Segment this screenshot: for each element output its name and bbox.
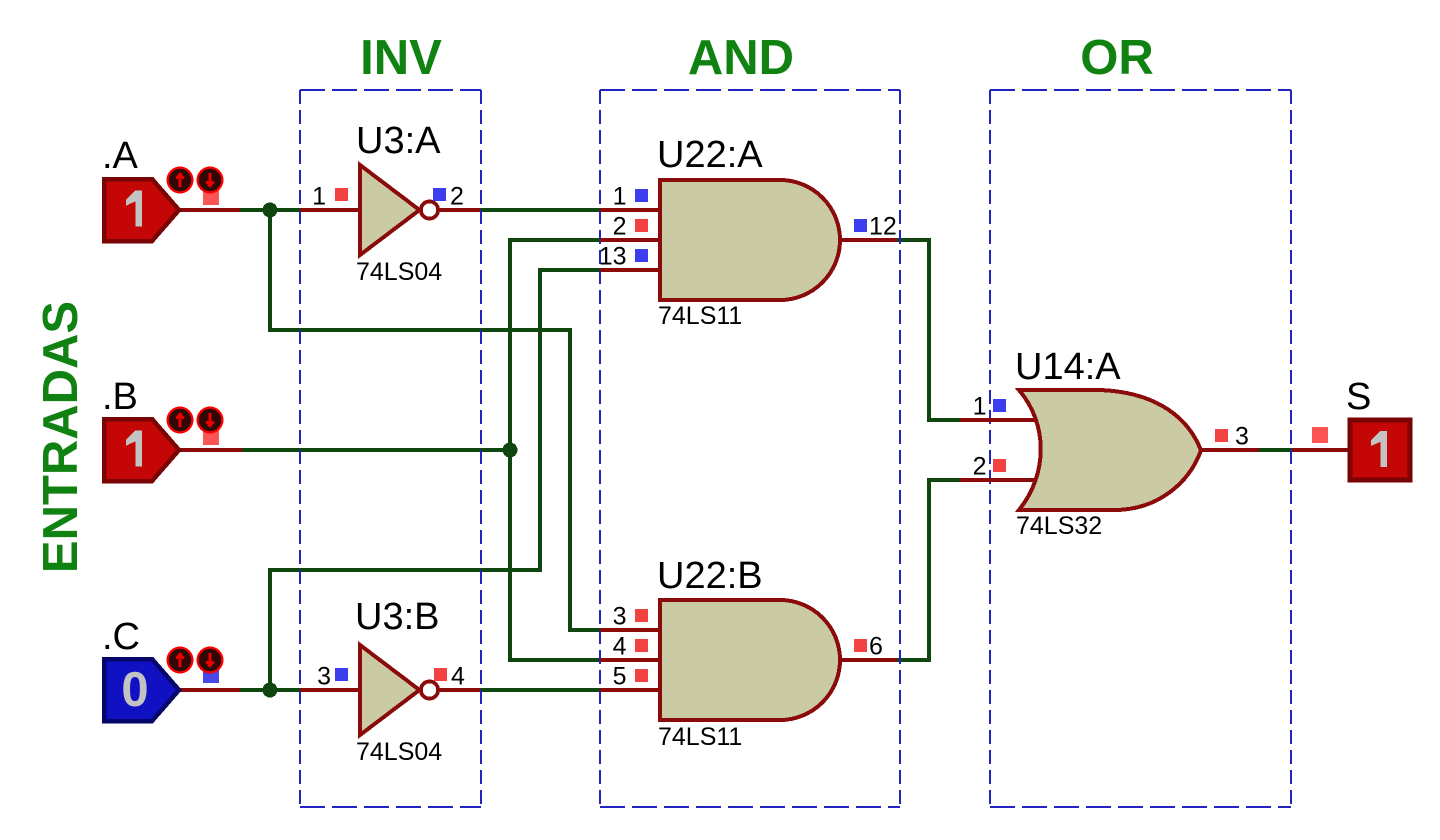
svg-text:1: 1 [312, 183, 326, 211]
svg-text:OR: OR [1080, 31, 1154, 85]
svg-text:74LS32: 74LS32 [1016, 512, 1102, 540]
svg-text:74LS11: 74LS11 [658, 723, 742, 751]
svg-text:ENTRADAS: ENTRADAS [34, 301, 88, 573]
svg-text:4: 4 [451, 663, 465, 691]
svg-text:2: 2 [973, 453, 987, 481]
svg-text:.A: .A [102, 135, 139, 177]
svg-text:5: 5 [613, 663, 627, 691]
svg-text:INV: INV [360, 31, 442, 85]
svg-text:74LS04: 74LS04 [356, 258, 442, 286]
svg-text:AND: AND [688, 31, 794, 85]
svg-text:U22:B: U22:B [657, 555, 763, 597]
svg-text:U3:B: U3:B [355, 596, 439, 638]
svg-text:1: 1 [973, 393, 987, 421]
svg-text:2: 2 [613, 213, 627, 241]
svg-text:74LS11: 74LS11 [658, 302, 742, 330]
svg-text:0: 0 [121, 663, 148, 717]
svg-text:.B: .B [102, 376, 138, 418]
svg-text:6: 6 [869, 633, 883, 661]
svg-text:3: 3 [613, 603, 627, 631]
svg-text:4: 4 [613, 633, 627, 661]
svg-text:3: 3 [1235, 423, 1249, 451]
svg-text:U3:A: U3:A [356, 120, 441, 162]
svg-text:2: 2 [450, 183, 464, 211]
svg-text:3: 3 [317, 663, 331, 691]
svg-text:1: 1 [613, 183, 627, 211]
svg-text:U22:A: U22:A [657, 134, 763, 176]
svg-text:S: S [1346, 376, 1371, 418]
svg-text:13: 13 [599, 243, 627, 271]
svg-text:U14:A: U14:A [1015, 346, 1121, 388]
svg-text:.C: .C [102, 616, 140, 658]
svg-text:74LS04: 74LS04 [356, 738, 442, 766]
svg-text:12: 12 [869, 213, 897, 241]
